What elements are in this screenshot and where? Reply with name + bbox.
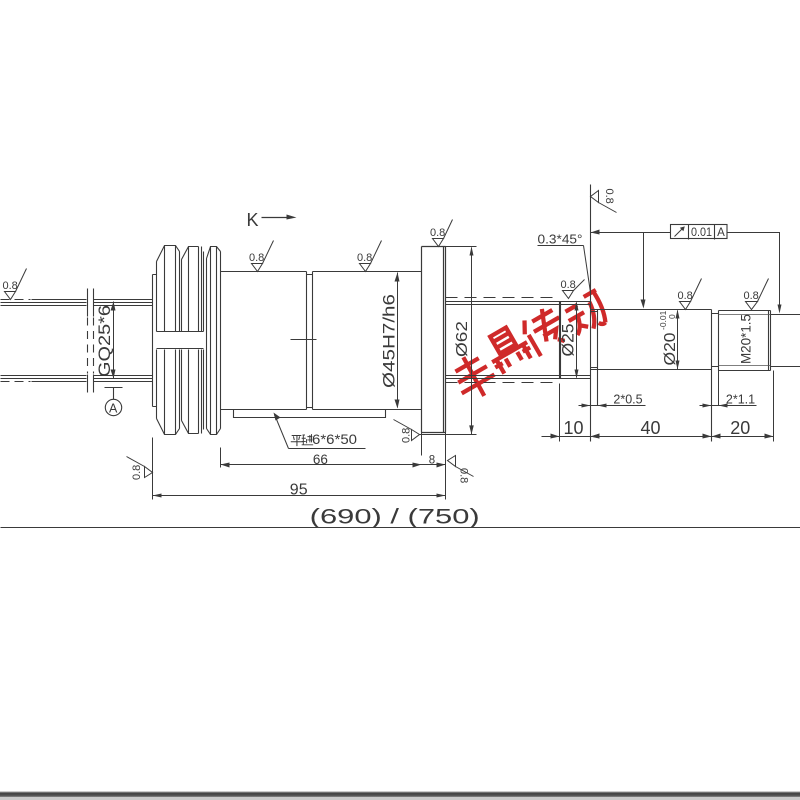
watermark 丰鼎传动 (red, under linework)	[446, 290, 612, 405]
svg-text:0.8: 0.8	[561, 279, 576, 291]
svg-text:0.8: 0.8	[458, 468, 470, 483]
cylinder 2 outline	[313, 272, 422, 410]
nut groove 1 / ring 2	[181, 260, 183, 421]
dimension 10	[542, 384, 609, 442]
鼎	[481, 322, 535, 376]
nut flange ring	[206, 259, 208, 429]
roughness 0.8 on flange disc	[433, 220, 453, 247]
wire: crest dashed top	[446, 297, 560, 299]
svg-text:Ø25: Ø25	[560, 324, 578, 357]
break mark line 2	[93, 289, 95, 317]
runout leader left arrow	[591, 232, 671, 234]
svg-text:0.8: 0.8	[603, 189, 615, 204]
svg-text:20: 20	[730, 418, 750, 438]
wire: crest dashed bottom	[446, 382, 560, 384]
svg-text:GQ25*6: GQ25*6	[96, 305, 114, 377]
roughness 0.8 rotated on flange left face	[394, 420, 420, 441]
丰	[446, 348, 501, 405]
dimension Ø20 with tolerance	[677, 311, 679, 370]
svg-text:40: 40	[640, 418, 660, 438]
datum A symbol	[105, 388, 123, 416]
dimension 66	[221, 448, 422, 468]
step face / extension line	[590, 185, 592, 442]
thread runout verticals	[560, 302, 561, 379]
svg-text:0.8: 0.8	[678, 290, 693, 302]
svg-text:A: A	[717, 227, 725, 239]
groove 2*0.5	[597, 310, 599, 370]
平 glyph	[291, 434, 313, 446]
roughness 0.8 on left screw	[5, 269, 27, 300]
svg-text:0.3*45°: 0.3*45°	[538, 232, 583, 247]
break mark line 1	[87, 289, 89, 317]
svg-text:M20*1.5: M20*1.5	[739, 314, 754, 364]
svg-text:8: 8	[429, 454, 435, 466]
roughness 0.8 on right screw	[563, 280, 585, 299]
roughness 0.8 rotated on nut left face	[127, 457, 153, 478]
svg-text:0: 0	[667, 314, 677, 319]
roughness 0.8 rotated on step face	[591, 191, 617, 213]
dimension 8	[422, 433, 446, 465]
center line tick	[291, 339, 317, 341]
svg-text:2*1.1: 2*1.1	[726, 393, 755, 407]
nut groove 2 line	[203, 252, 205, 430]
groove 2*1.1 surfaces	[712, 314, 719, 367]
svg-text:A: A	[109, 401, 118, 415]
svg-text:0.8: 0.8	[430, 227, 445, 239]
bottom page light bar	[0, 797, 800, 800]
svg-text:2*0.5: 2*0.5	[613, 393, 642, 407]
svg-text:(690) / (750): (690) / (750)	[310, 506, 480, 529]
svg-text:0.8: 0.8	[744, 290, 759, 302]
runout leader to end stub	[728, 233, 780, 308]
dimension 2*1.1 groove	[700, 405, 757, 407]
dimension Ø45H7/h6	[397, 273, 399, 408]
roughness 0.8 on Ø20	[680, 279, 702, 310]
svg-text:0.8: 0.8	[131, 465, 143, 480]
bottom page divider dark bar	[0, 792, 800, 798]
wire: screw lines between break and nut (top)	[94, 300, 153, 306]
dimension 20	[712, 436, 774, 438]
M20 thread root lines	[719, 315, 771, 366]
svg-text:10: 10	[563, 418, 583, 438]
svg-text:0.8: 0.8	[249, 252, 264, 264]
wire: outer top lines	[446, 302, 591, 305]
dimension Ø62	[420, 247, 477, 435]
wire: left screw crest top (dashed then solid)	[1, 299, 31, 301]
cylinder gap groove	[307, 272, 313, 410]
Ø20 outline	[591, 310, 712, 370]
svg-text:K: K	[247, 210, 259, 230]
svg-text:Ø62: Ø62	[454, 321, 471, 357]
动	[562, 290, 612, 338]
nut ring 1	[156, 262, 158, 419]
cylinder 1 outline	[221, 272, 307, 410]
roughness 0.8 rotated on flange right face	[448, 456, 474, 477]
M20 outline	[719, 311, 771, 371]
overall dimension (690) / (750)	[1, 527, 800, 529]
nut wiper end cap	[153, 275, 157, 407]
wire: left screw outer bottom pair	[1, 375, 87, 377]
svg-text:95: 95	[290, 482, 308, 499]
runout leader to Ø20 surface	[643, 233, 645, 303]
svg-text:Ø20: Ø20	[662, 332, 679, 365]
svg-text:Ø45H7/h6: Ø45H7/h6	[381, 294, 399, 388]
wire: left screw outer top pair	[1, 302, 87, 304]
extension line for 20 dim	[773, 371, 775, 442]
dimension GQ25*6	[113, 302, 115, 379]
nut center band	[157, 332, 204, 349]
传	[518, 304, 571, 358]
dimension 2*0.5 groove	[579, 405, 646, 407]
M20 end edges	[769, 311, 771, 371]
dimension 40	[591, 436, 712, 438]
键 glyph	[302, 434, 313, 445]
dimension 95	[153, 433, 446, 500]
svg-text:0.8: 0.8	[357, 252, 372, 264]
roughness 0.8 on cylinder 2	[360, 241, 382, 272]
svg-text:0.8: 0.8	[3, 280, 18, 292]
Ø20 end face	[711, 310, 713, 442]
svg-text:0.8: 0.8	[401, 428, 413, 443]
keyway key strip	[234, 410, 386, 418]
circular runout symbol	[675, 228, 684, 237]
wire: outer bottom lines	[446, 376, 591, 379]
runout tolerance frame 0.01 A	[671, 225, 728, 240]
wire: left screw crest bottom (dashed then solid)	[1, 381, 31, 383]
keyway label 平键6*6*50	[275, 415, 366, 449]
svg-text:-0.01: -0.01	[658, 310, 668, 330]
wire: screw lines between break and nut (bottom)	[94, 376, 153, 382]
svg-text:66: 66	[313, 452, 328, 467]
dimension Ø25	[576, 303, 578, 378]
svg-text:0.01: 0.01	[691, 227, 712, 239]
roughness 0.8 on cylinder 1	[252, 241, 274, 272]
roughness 0.8 on M20	[746, 279, 769, 310]
svg-text:6*6*50: 6*6*50	[312, 432, 357, 447]
